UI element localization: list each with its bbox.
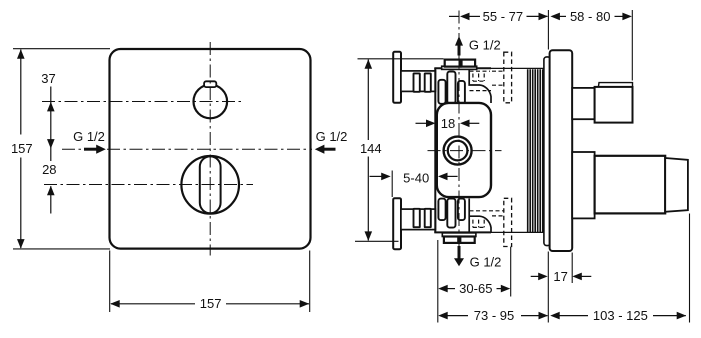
svg-text:37: 37 — [41, 71, 55, 86]
dimension 58-80 — [550, 9, 632, 24]
dimension 17 right extension — [571, 253, 573, 284]
dimension 30-65 — [438, 281, 510, 296]
valve body top edge — [434, 67, 544, 69]
svg-text:18: 18 — [441, 116, 455, 131]
dimension 157 bottom: text — [200, 296, 222, 311]
dimension 58-80 right extension — [631, 10, 633, 81]
upper lobe hidden lines — [470, 71, 504, 90]
wall hatching — [528, 69, 543, 232]
bottom union nut facets — [444, 237, 475, 243]
dimension 17 — [531, 269, 592, 284]
dimension 5-40 — [370, 171, 458, 186]
svg-text:55 - 77: 55 - 77 — [483, 9, 523, 24]
svg-text:157: 157 — [200, 296, 222, 311]
dimension 5-40 extension — [391, 171, 393, 198]
trim block — [550, 50, 573, 251]
svg-text:G 1/2: G 1/2 — [470, 254, 502, 269]
dimension 37: line and arrows — [47, 87, 55, 162]
bottom handle body — [595, 156, 666, 214]
top rail — [401, 71, 436, 92]
dimension 103-125 right extension — [689, 214, 691, 323]
lower body slots — [438, 199, 465, 228]
bottom handle end cap — [665, 158, 688, 212]
dimension 157 bottom: extension lines — [110, 251, 310, 313]
bottom rail — [401, 209, 436, 230]
right view vertical centerline — [458, 11, 460, 248]
svg-text:157: 157 — [11, 141, 33, 156]
dimension 55-77 — [449, 9, 548, 24]
small circle top tab — [204, 81, 216, 87]
small circle (temperature handle base) — [194, 85, 228, 119]
svg-text:G 1/2: G 1/2 — [469, 38, 501, 53]
wall surface extension line — [547, 252, 549, 323]
svg-text:28: 28 — [42, 162, 56, 177]
lower right lobe outline — [469, 199, 491, 233]
svg-text:103 - 125: 103 - 125 — [593, 308, 648, 323]
top knob connector — [572, 88, 594, 119]
dimension 157 bottom: line and arrows — [110, 300, 309, 308]
top mounting flange — [393, 52, 401, 103]
svg-text:144: 144 — [360, 141, 382, 156]
dimension 103-125 — [550, 308, 686, 323]
lower lobe hidden lines — [470, 211, 505, 228]
top union nut facets — [445, 60, 475, 67]
side port outer circle — [444, 137, 472, 165]
dimension 157 left: line and arrows — [17, 49, 25, 248]
G 1/2 arrow left — [84, 145, 106, 154]
dimension 73-95 — [438, 308, 548, 323]
top rail teeth — [414, 73, 431, 91]
svg-text:17: 17 — [553, 269, 567, 284]
dimension 18 — [416, 116, 480, 131]
dimension 157 left: text — [11, 141, 33, 156]
small circle centerline — [42, 101, 242, 103]
dimension 55-77/58-80 shared extension — [547, 10, 549, 50]
G 1/2 bottom arrow — [454, 246, 464, 266]
upper body slots — [438, 72, 465, 104]
dimension 157 left: extension lines — [13, 49, 110, 249]
dimension 144: extension lines — [355, 59, 444, 242]
svg-text:G 1/2: G 1/2 — [316, 129, 348, 144]
large circle (volume handle base) — [181, 156, 239, 214]
G 1/2 label left — [73, 129, 105, 144]
bottom mounting flange — [393, 198, 401, 249]
G 1/2 bottom label — [470, 254, 502, 269]
svg-text:5-40: 5-40 — [403, 171, 429, 186]
dimension 144: line and arrows — [365, 59, 373, 241]
G 1/2 arrow right — [315, 145, 336, 154]
vertical centerline left view — [209, 42, 211, 256]
dimension 144: text — [360, 141, 382, 156]
svg-text:58 - 80: 58 - 80 — [570, 9, 610, 24]
bottom rail teeth — [414, 209, 431, 227]
G 1/2 centerline — [62, 148, 312, 150]
front plate — [110, 49, 311, 249]
top knob lip — [598, 83, 632, 87]
dimension 37: text — [41, 71, 55, 86]
side port inner circle — [448, 141, 468, 161]
valve body left edge — [434, 68, 436, 233]
svg-text:73 - 95: 73 - 95 — [474, 308, 514, 323]
dimension 28: arrow — [47, 186, 55, 214]
rosette plate — [544, 57, 551, 246]
svg-text:30-65: 30-65 — [459, 281, 492, 296]
central capsule — [437, 103, 491, 197]
G 1/2 label right — [316, 129, 348, 144]
bottom union cap slab — [442, 233, 476, 237]
svg-text:G 1/2: G 1/2 — [73, 129, 105, 144]
G 1/2 top arrow — [455, 36, 463, 56]
upper dashed box (min wall position) — [504, 52, 512, 103]
large circle centerline — [44, 184, 253, 186]
bottom handle collar — [572, 152, 594, 218]
lower dashed box (min wall position) — [504, 198, 512, 246]
dimension 28: text — [42, 162, 56, 177]
large circle slot — [200, 156, 221, 213]
valve body bottom edge — [434, 231, 544, 233]
G 1/2 top label — [469, 38, 501, 53]
upper right lobe outline — [469, 69, 491, 103]
top union cap slab — [442, 66, 477, 69]
top knob body — [595, 87, 633, 123]
right view horizontal centerline — [428, 150, 502, 152]
dimension 30-65 extensions — [438, 240, 511, 323]
